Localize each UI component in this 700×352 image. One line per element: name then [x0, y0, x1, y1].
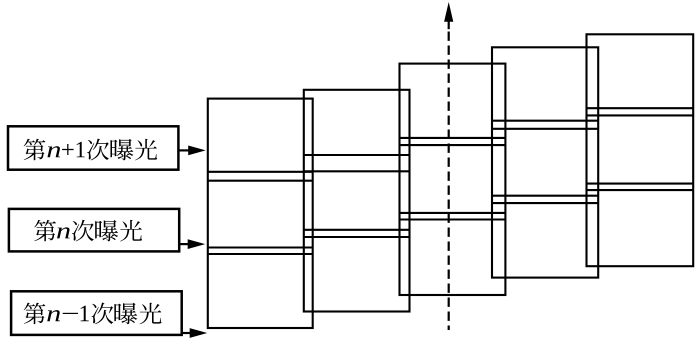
text3 minus	[63, 313, 78, 314]
column 4 upper field bottom edge	[492, 120, 598, 122]
text3 次	[92, 303, 114, 325]
scan axis arrowhead	[444, 2, 453, 22]
text1 曝	[110, 139, 133, 160]
text3 曝	[114, 303, 137, 324]
column 2 exposure field stack: outer rectangle	[304, 90, 410, 312]
column 5 middle field bottom edge	[587, 183, 694, 185]
text1 光	[135, 139, 157, 161]
column 3 upper field bottom edge	[400, 137, 506, 139]
text1 n (italic)	[47, 146, 60, 157]
text2 n (italic)	[57, 227, 70, 238]
column 5 upper field bottom edge	[587, 107, 694, 109]
column 2 middle field bottom edge	[304, 229, 410, 231]
text3 光	[140, 303, 162, 325]
column 4 exposure field stack: outer rectangle	[492, 47, 598, 277]
column 1 lower field top edge	[208, 253, 313, 255]
column 2 lower field top edge	[304, 236, 410, 238]
column 4 middle field top edge	[492, 128, 598, 130]
text1 次	[87, 139, 109, 161]
column 5 lower field top edge	[587, 189, 694, 191]
scan axis dashed arrow line	[448, 32, 450, 331]
arrow from label 1: head	[188, 146, 206, 156]
column 1 middle field bottom edge	[208, 246, 313, 248]
text1 +	[62, 144, 74, 155]
column 4 lower field top edge	[492, 202, 598, 204]
column 1 exposure field stack: outer rectangle	[208, 99, 313, 328]
text3 第	[24, 303, 46, 325]
column 3 exposure field stack: outer rectangle	[400, 64, 506, 295]
column 3 middle field top edge	[400, 144, 506, 146]
column 3 lower field top edge	[400, 218, 506, 220]
column 1 upper field bottom edge	[208, 171, 313, 173]
arrow from label 2: shaft	[179, 243, 191, 245]
text3 1	[81, 306, 89, 322]
label box 2 (nth exposure)	[9, 209, 179, 252]
text2 光	[120, 220, 142, 242]
arrow from label 1: shaft	[178, 149, 191, 151]
text3 n (italic)	[47, 310, 60, 321]
text1 第	[24, 139, 46, 161]
column 2 middle field top edge	[304, 170, 410, 172]
label box 1 (n+1th exposure)	[8, 126, 178, 169]
arrow from label 2: head	[188, 239, 206, 249]
text1 1	[77, 142, 85, 158]
label box 3 (n-1th exposure)	[11, 291, 182, 335]
text2 次	[72, 220, 94, 242]
column 1 middle field top edge	[208, 180, 313, 182]
text2 第	[34, 220, 56, 242]
column 4 middle field bottom edge	[492, 195, 598, 197]
text2 曝	[95, 220, 118, 241]
column 3 middle field bottom edge	[400, 212, 506, 214]
column 5 exposure field stack: outer rectangle	[587, 34, 694, 266]
arrow from label 3: shaft	[182, 332, 194, 334]
column 5 middle field top edge	[587, 114, 694, 116]
scan axis arrow neck	[448, 20, 450, 29]
arrow from label 3: head	[190, 328, 208, 338]
column 2 upper field bottom edge	[304, 154, 410, 156]
